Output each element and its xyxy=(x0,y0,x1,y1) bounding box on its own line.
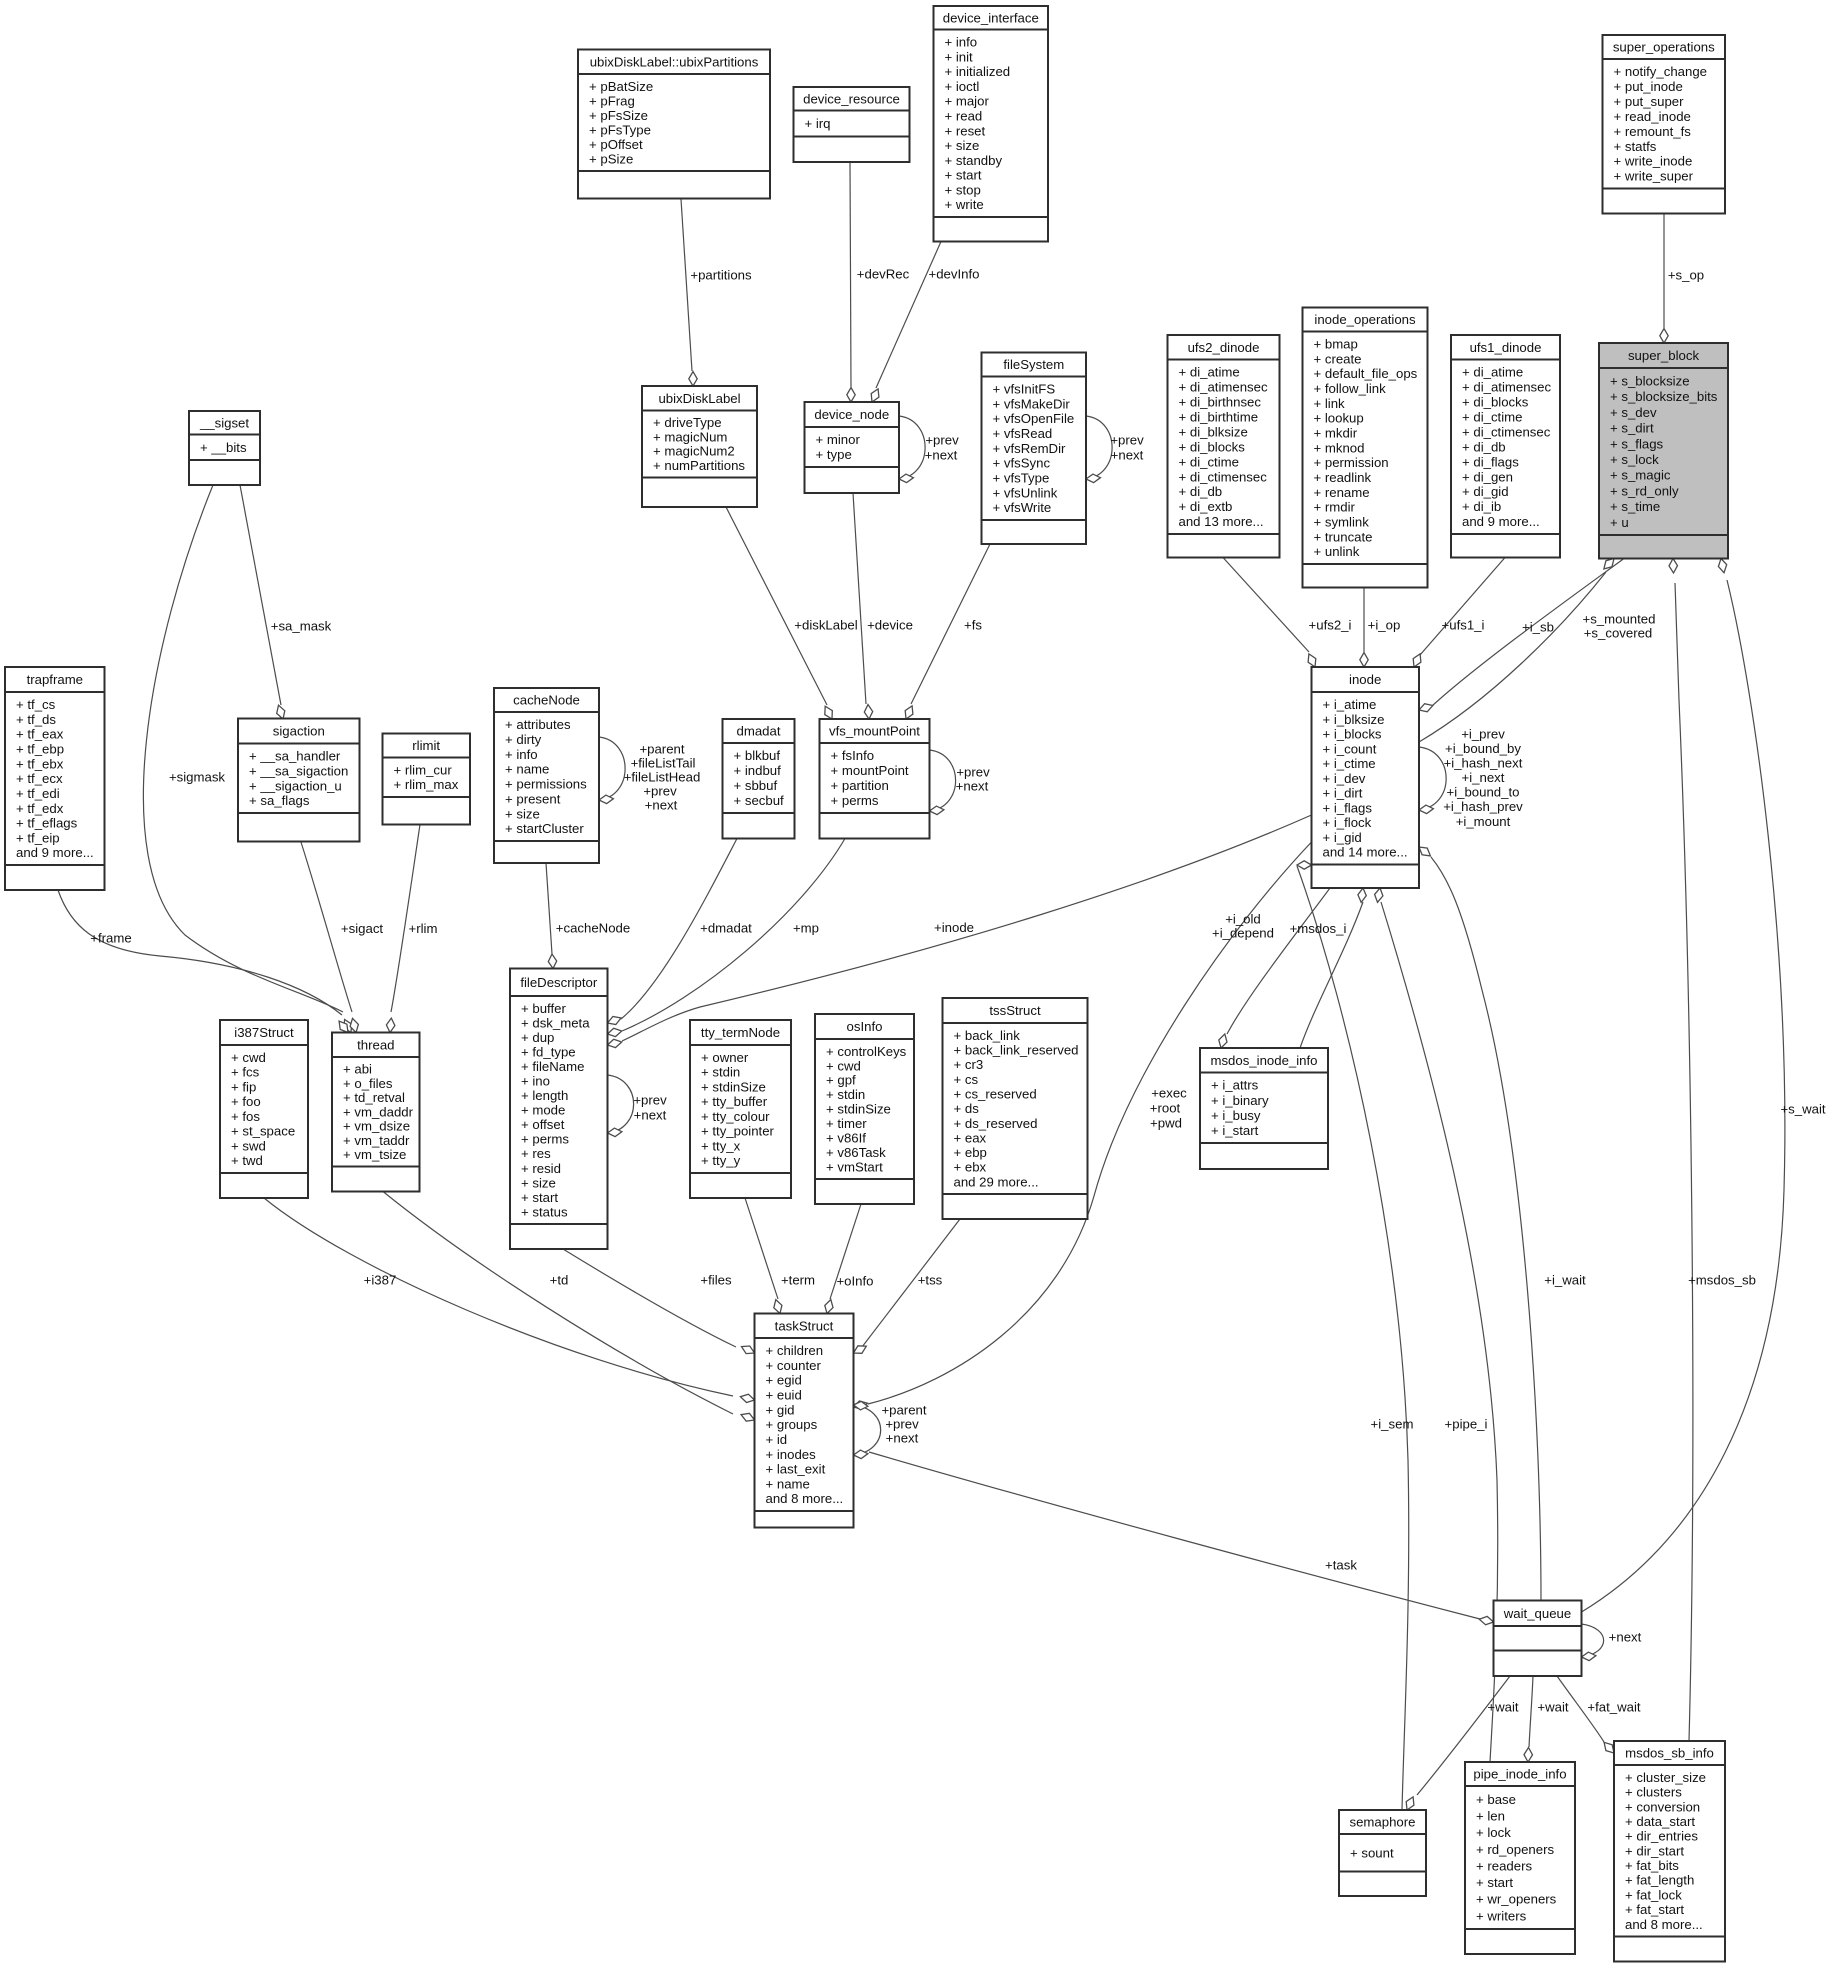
svg-text:+i_bound_by: +i_bound_by xyxy=(1445,741,1521,756)
svg-text:+ perms: + perms xyxy=(521,1132,569,1147)
edge +partitions ubixPartitions->ubixDiskLabel xyxy=(681,199,697,386)
svg-text:+frame: +frame xyxy=(90,931,131,946)
svg-text:and 9 more...: and 9 more... xyxy=(16,845,94,860)
svg-text:+ children: + children xyxy=(766,1343,824,1358)
svg-text:+i_op: +i_op xyxy=(1368,618,1401,633)
svg-text:+ di_ctimensec: + di_ctimensec xyxy=(1179,469,1268,484)
class box taskStruct xyxy=(755,1314,854,1528)
edge +i_sem inode->semaphore xyxy=(1297,861,1409,1810)
svg-text:+ di_ib: + di_ib xyxy=(1462,499,1501,514)
svg-text:+ create: + create xyxy=(1314,351,1362,366)
svg-text:+ offset: + offset xyxy=(521,1117,565,1132)
svg-text:+ info: + info xyxy=(945,35,978,50)
svg-text:+ res: + res xyxy=(521,1146,551,1161)
svg-text:+ fat_start: + fat_start xyxy=(1625,1902,1684,1917)
svg-text:+ di_atimensec: + di_atimensec xyxy=(1462,380,1551,395)
svg-text:+ mountPoint: + mountPoint xyxy=(831,763,909,778)
svg-text:+ufs2_i: +ufs2_i xyxy=(1309,618,1352,633)
svg-text:+ back_link_reserved: + back_link_reserved xyxy=(954,1043,1079,1058)
edge +msdos_sb msdos_sb_info->super_block xyxy=(1669,559,1693,1742)
svg-text:+ s_time: + s_time xyxy=(1610,499,1660,514)
edge +wait wait_queue->semaphore xyxy=(1406,1676,1510,1810)
svg-text:+ ds_reserved: + ds_reserved xyxy=(954,1116,1038,1131)
svg-text:+ di_db: + di_db xyxy=(1462,439,1506,454)
edge +files fileDescriptor->taskStruct xyxy=(563,1249,755,1354)
svg-text:+ statfs: + statfs xyxy=(1614,139,1657,154)
svg-text:+ len: + len xyxy=(1476,1809,1505,1824)
svg-text:msdos_sb_info: msdos_sb_info xyxy=(1625,1746,1714,1761)
class box ufs1_dinode xyxy=(1451,335,1560,558)
svg-text:+i_prev: +i_prev xyxy=(1461,727,1505,742)
svg-text:+ startCluster: + startCluster xyxy=(505,821,584,836)
class box fileDescriptor xyxy=(510,969,608,1250)
class box ufs2_dinode xyxy=(1168,335,1280,558)
svg-text:+ truncate: + truncate xyxy=(1314,529,1373,544)
svg-text:+ i_blksize: + i_blksize xyxy=(1323,712,1385,727)
svg-text:wait_queue: wait_queue xyxy=(1503,1606,1571,1621)
svg-text:+ tf_edi: + tf_edi xyxy=(16,786,60,801)
svg-text:+ controlKeys: + controlKeys xyxy=(826,1044,907,1059)
svg-text:+ stdin: + stdin xyxy=(701,1065,740,1080)
svg-text:+ dup: + dup xyxy=(521,1030,554,1045)
edge +i387 i387Struct->taskStruct xyxy=(264,1198,755,1403)
svg-text:+ wr_openers: + wr_openers xyxy=(1476,1892,1557,1907)
class box super_operations xyxy=(1603,35,1726,214)
svg-text:+ u: + u xyxy=(1610,515,1629,530)
svg-text:+ pFsSize: + pFsSize xyxy=(589,108,648,123)
svg-text:+ tf_cs: + tf_cs xyxy=(16,697,56,712)
svg-text:and 14 more...: and 14 more... xyxy=(1323,845,1408,860)
svg-text:+ name: + name xyxy=(766,1476,810,1491)
svg-text:+ eax: + eax xyxy=(954,1130,987,1145)
edge +devInfo device_interface->device_node xyxy=(871,242,941,403)
svg-text:+ inodes: + inodes xyxy=(766,1447,817,1462)
svg-text:+ i_flags: + i_flags xyxy=(1323,800,1373,815)
edge +i_sb super_block->inode xyxy=(1419,559,1624,712)
svg-text:+s_wait: +s_wait xyxy=(1780,1102,1825,1117)
svg-text:dmadat: dmadat xyxy=(737,724,781,739)
svg-text:+ type: + type xyxy=(816,447,852,462)
svg-text:+ tf_ds: + tf_ds xyxy=(16,712,56,727)
svg-text:+ i_flock: + i_flock xyxy=(1323,815,1372,830)
svg-text:fileSystem: fileSystem xyxy=(1003,357,1064,372)
class box device_resource xyxy=(794,87,910,162)
svg-text:+ partition: + partition xyxy=(831,778,889,793)
class box device_node xyxy=(805,402,900,493)
svg-text:+ vfsUnlink: + vfsUnlink xyxy=(993,485,1058,500)
svg-text:+ vm_dsize: + vm_dsize xyxy=(343,1119,410,1134)
svg-text:+i_sb: +i_sb xyxy=(1522,620,1554,635)
svg-text:trapframe: trapframe xyxy=(27,672,83,687)
svg-text:+ vmStart: + vmStart xyxy=(826,1159,883,1174)
svg-text:+ vfsOpenFile: + vfsOpenFile xyxy=(993,411,1075,426)
svg-text:+term: +term xyxy=(781,1273,815,1288)
svg-text:+ readlink: + readlink xyxy=(1314,470,1372,485)
class box cacheNode xyxy=(494,688,599,863)
svg-text:+ gid: + gid xyxy=(766,1402,795,1417)
svg-text:+ write: + write xyxy=(945,197,984,212)
svg-text:+ dir_start: + dir_start xyxy=(1625,1843,1684,1858)
class box wait_queue xyxy=(1494,1601,1582,1677)
svg-text:+ di_blksize: + di_blksize xyxy=(1179,424,1248,439)
svg-text:+ vfsRead: + vfsRead xyxy=(993,426,1053,441)
svg-text:+ gpf: + gpf xyxy=(826,1073,856,1088)
svg-text:ufs2_dinode: ufs2_dinode xyxy=(1188,340,1260,355)
svg-text:+device: +device xyxy=(867,618,913,633)
svg-text:+ standby: + standby xyxy=(945,153,1003,168)
svg-text:+ di_ctime: + di_ctime xyxy=(1179,454,1239,469)
svg-text:+ lookup: + lookup xyxy=(1314,411,1364,426)
svg-text:+ ds: + ds xyxy=(954,1101,980,1116)
svg-text:+ cluster_size: + cluster_size xyxy=(1625,1770,1706,1785)
svg-text:+i_old: +i_old xyxy=(1225,912,1261,927)
edge +ufs1_i ufs1_dinode->inode xyxy=(1413,558,1505,668)
class box device_interface xyxy=(934,6,1049,242)
class box vfs_mountPoint xyxy=(820,719,930,839)
svg-text:+ i_dev: + i_dev xyxy=(1323,771,1366,786)
edge +frame trapframe->thread xyxy=(58,890,348,1033)
svg-text:+ fd_type: + fd_type xyxy=(521,1045,576,1060)
svg-text:+ stdinSize: + stdinSize xyxy=(826,1102,891,1117)
svg-text:+ cr3: + cr3 xyxy=(954,1057,984,1072)
edge +fs fileSystem->vfs_mountPoint xyxy=(905,544,990,719)
svg-text:+ start: + start xyxy=(1476,1875,1513,1890)
svg-text:+prev: +prev xyxy=(633,1093,667,1108)
svg-text:+s_mounted: +s_mounted xyxy=(1583,612,1656,627)
svg-text:+ di_atime: + di_atime xyxy=(1179,365,1240,380)
svg-text:+ id: + id xyxy=(766,1432,788,1447)
svg-text:+ i_busy: + i_busy xyxy=(1211,1108,1261,1123)
svg-text:+fileListTail: +fileListTail xyxy=(631,756,696,771)
svg-text:+inode: +inode xyxy=(934,920,974,935)
svg-text:+ reset: + reset xyxy=(945,123,986,138)
svg-text:+ i_gid: + i_gid xyxy=(1323,830,1362,845)
edge +mp vfs_mountPoint->fileDescriptor xyxy=(608,839,846,1037)
svg-text:+fat_wait: +fat_wait xyxy=(1587,1700,1640,1715)
svg-text:+files: +files xyxy=(700,1273,732,1288)
svg-text:+prev: +prev xyxy=(1110,433,1144,448)
svg-text:+oInfo: +oInfo xyxy=(836,1274,873,1289)
svg-text:pipe_inode_info: pipe_inode_info xyxy=(1473,1767,1566,1782)
svg-text:+ pFsType: + pFsType xyxy=(589,122,651,137)
svg-text:+ swd: + swd xyxy=(231,1139,266,1154)
svg-text:+ dsk_meta: + dsk_meta xyxy=(521,1015,590,1030)
edge +wait wait_queue->pipe_inode_info xyxy=(1524,1676,1533,1762)
svg-text:+parent: +parent xyxy=(639,742,684,757)
edge +sa_mask __sigset->sigaction xyxy=(240,485,285,719)
svg-text:+ vfsSync: + vfsSync xyxy=(993,456,1051,471)
class box ubixDiskLabel::ubixPartitions xyxy=(578,50,770,199)
svg-text:+ ioctl: + ioctl xyxy=(945,79,980,94)
svg-text:+ tf_edx: + tf_edx xyxy=(16,801,64,816)
svg-text:taskStruct: taskStruct xyxy=(775,1318,834,1333)
svg-text:+ stop: + stop xyxy=(945,182,981,197)
svg-text:+ i_blocks: + i_blocks xyxy=(1323,727,1382,742)
svg-text:+ vfsMakeDir: + vfsMakeDir xyxy=(993,396,1071,411)
svg-text:+ tf_eax: + tf_eax xyxy=(16,727,64,742)
svg-text:+prev: +prev xyxy=(885,1417,919,1432)
class box sigaction xyxy=(238,719,360,842)
svg-text:+ present: + present xyxy=(505,791,561,806)
svg-text:semaphore: semaphore xyxy=(1350,1815,1416,1830)
edge +diskLabel ubixDiskLabel->vfs_mountPoint xyxy=(726,507,832,719)
svg-text:+ foo: + foo xyxy=(231,1094,261,1109)
svg-text:+ start: + start xyxy=(945,168,982,183)
svg-text:+mp: +mp xyxy=(793,921,819,936)
edge +oInfo osInfo->taskStruct xyxy=(825,1204,861,1314)
svg-text:+ di_atimensec: + di_atimensec xyxy=(1179,380,1268,395)
svg-text:+ fat_length: + fat_length xyxy=(1625,1873,1694,1888)
svg-text:+i_hash_next: +i_hash_next xyxy=(1444,756,1523,771)
svg-text:+next: +next xyxy=(1609,1630,1642,1645)
svg-text:+ abi: + abi xyxy=(343,1062,372,1077)
class box thread xyxy=(332,1033,420,1192)
svg-text:+ __sa_handler: + __sa_handler xyxy=(249,749,341,764)
class box pipe_inode_info xyxy=(1465,1762,1575,1954)
class box ubixDiskLabel xyxy=(642,386,757,507)
edge +devRec device_resource->device_node xyxy=(847,162,855,402)
svg-text:+ cwd: + cwd xyxy=(826,1058,861,1073)
svg-text:+rlim: +rlim xyxy=(409,921,438,936)
svg-text:+ s_flags: + s_flags xyxy=(1610,436,1664,451)
svg-text:+ secbuf: + secbuf xyxy=(734,793,785,808)
svg-text:+ bmap: + bmap xyxy=(1314,337,1358,352)
svg-text:+ vm_tsize: + vm_tsize xyxy=(343,1147,406,1162)
svg-text:+ stdin: + stdin xyxy=(826,1087,865,1102)
svg-text:+ufs1_i: +ufs1_i xyxy=(1442,618,1485,633)
svg-text:+ rmdir: + rmdir xyxy=(1314,500,1356,515)
svg-text:+ tf_eflags: + tf_eflags xyxy=(16,816,78,831)
svg-text:+wait: +wait xyxy=(1487,1700,1518,1715)
svg-text:+s_covered: +s_covered xyxy=(1584,626,1653,641)
svg-text:+ dirty: + dirty xyxy=(505,732,542,747)
svg-text:inode: inode xyxy=(1349,672,1381,687)
svg-text:+ tty_x: + tty_x xyxy=(701,1139,741,1154)
svg-text:+ v86Task: + v86Task xyxy=(826,1145,886,1160)
svg-text:rlimit: rlimit xyxy=(412,738,440,753)
svg-text:+ notify_change: + notify_change xyxy=(1614,64,1708,79)
svg-text:+ cwd: + cwd xyxy=(231,1050,266,1065)
svg-text:tssStruct: tssStruct xyxy=(989,1003,1041,1018)
svg-text:+ permission: + permission xyxy=(1314,455,1389,470)
svg-text:+ pBatSize: + pBatSize xyxy=(589,79,653,94)
svg-text:+ s_rd_only: + s_rd_only xyxy=(1610,483,1679,498)
svg-text:+ length: + length xyxy=(521,1088,568,1103)
self-loop vfs_mountPoint +prev+next xyxy=(930,750,956,815)
svg-text:+ sount: + sount xyxy=(1350,1845,1394,1860)
svg-text:+ link: + link xyxy=(1314,396,1346,411)
edge +td thread->taskStruct xyxy=(383,1192,755,1422)
svg-text:i387Struct: i387Struct xyxy=(234,1025,294,1040)
svg-text:+ di_blocks: + di_blocks xyxy=(1462,395,1529,410)
svg-text:+ i_ctime: + i_ctime xyxy=(1323,756,1376,771)
edge +exec+root+pwd inode->taskStruct xyxy=(854,842,1312,1409)
self-loop fileSystem +prev+next xyxy=(1086,416,1112,483)
svg-text:+ fos: + fos xyxy=(231,1109,260,1124)
svg-text:+wait: +wait xyxy=(1537,1700,1568,1715)
svg-text:+ tf_ecx: + tf_ecx xyxy=(16,771,63,786)
svg-text:+ di_birthtime: + di_birthtime xyxy=(1179,410,1259,425)
svg-text:+ write_inode: + write_inode xyxy=(1614,154,1693,169)
svg-text:+ vfsInitFS: + vfsInitFS xyxy=(993,382,1056,397)
svg-text:+ di_ctimensec: + di_ctimensec xyxy=(1462,424,1551,439)
svg-text:+fileListHead: +fileListHead xyxy=(624,770,701,785)
svg-text:+ dir_entries: + dir_entries xyxy=(1625,1829,1698,1844)
svg-text:+ rlim_max: + rlim_max xyxy=(394,777,459,792)
svg-text:device_node: device_node xyxy=(814,407,889,422)
svg-text:+ lock: + lock xyxy=(1476,1825,1511,1840)
svg-text:device_resource: device_resource xyxy=(803,91,900,106)
svg-text:+prev: +prev xyxy=(643,784,677,799)
svg-text:+ data_start: + data_start xyxy=(1625,1814,1695,1829)
svg-text:+ s_dev: + s_dev xyxy=(1610,405,1657,420)
svg-text:+ name: + name xyxy=(505,762,549,777)
svg-text:+ indbuf: + indbuf xyxy=(734,763,782,778)
svg-text:+ rlim_cur: + rlim_cur xyxy=(394,763,453,778)
svg-text:+sigact: +sigact xyxy=(341,921,383,936)
svg-text:inode_operations: inode_operations xyxy=(1314,312,1416,327)
svg-text:+ last_exit: + last_exit xyxy=(766,1462,826,1477)
svg-text:+ tty_y: + tty_y xyxy=(701,1153,741,1168)
svg-text:+partitions: +partitions xyxy=(690,268,752,283)
svg-text:+ di_atime: + di_atime xyxy=(1462,365,1523,380)
self-loop inode +i_prev... xyxy=(1419,747,1446,814)
svg-text:+ info: + info xyxy=(505,747,538,762)
edge +sigact sigaction->thread xyxy=(300,839,358,1033)
svg-text:+ stdinSize: + stdinSize xyxy=(701,1080,766,1095)
svg-text:+ numPartitions: + numPartitions xyxy=(653,458,745,473)
svg-text:+i_sem: +i_sem xyxy=(1371,1417,1414,1432)
svg-text:+sigmask: +sigmask xyxy=(169,770,225,785)
svg-text:+ remount_fs: + remount_fs xyxy=(1614,124,1692,139)
svg-text:+ size: + size xyxy=(521,1175,556,1190)
svg-text:and 13 more...: and 13 more... xyxy=(1179,514,1264,529)
edge +s_mounted inode->super_block xyxy=(1419,559,1614,743)
edge +i_old+i_depend inode->msdos_inode_info xyxy=(1219,888,1330,1048)
svg-text:+ vm_daddr: + vm_daddr xyxy=(343,1104,414,1119)
svg-text:+ write_super: + write_super xyxy=(1614,169,1694,184)
svg-text:+ minor: + minor xyxy=(816,432,861,447)
svg-text:+ fileName: + fileName xyxy=(521,1059,584,1074)
svg-text:+i_depend: +i_depend xyxy=(1212,926,1274,941)
svg-text:+ td_retval: + td_retval xyxy=(343,1090,405,1105)
class box msdos_sb_info xyxy=(1614,1741,1725,1962)
svg-text:+ tty_pointer: + tty_pointer xyxy=(701,1124,775,1139)
svg-text:+ status: + status xyxy=(521,1204,568,1219)
svg-text:ubixDiskLabel: ubixDiskLabel xyxy=(658,391,740,406)
svg-text:+ sa_flags: + sa_flags xyxy=(249,793,310,808)
svg-text:+ di_blocks: + di_blocks xyxy=(1179,439,1246,454)
svg-text:+ __sa_sigaction: + __sa_sigaction xyxy=(249,763,348,778)
svg-text:+ mode: + mode xyxy=(521,1103,565,1118)
svg-text:+prev: +prev xyxy=(925,433,959,448)
svg-text:+ mkdir: + mkdir xyxy=(1314,426,1358,441)
svg-text:+diskLabel: +diskLabel xyxy=(794,618,857,633)
self-loop cacheNode +parent... xyxy=(599,737,625,804)
svg-text:+s_op: +s_op xyxy=(1668,268,1704,283)
class box inode xyxy=(1312,667,1420,888)
edge +pipe_i inode->pipe_inode_info xyxy=(1375,888,1498,1762)
svg-text:+ rd_openers: + rd_openers xyxy=(1476,1842,1554,1857)
svg-text:+ tty_colour: + tty_colour xyxy=(701,1109,770,1124)
svg-text:ubixDiskLabel::ubixPartitions: ubixDiskLabel::ubixPartitions xyxy=(590,54,759,69)
svg-text:+ fat_lock: + fat_lock xyxy=(1625,1887,1682,1902)
svg-text:+next: +next xyxy=(1111,448,1144,463)
svg-text:+ size: + size xyxy=(505,806,540,821)
edge +inode inode->fileDescriptor xyxy=(608,815,1312,1048)
svg-text:+ driveType: + driveType xyxy=(653,415,722,430)
svg-text:+ tf_eip: + tf_eip xyxy=(16,830,60,845)
svg-text:+ back_link: + back_link xyxy=(954,1028,1021,1043)
class box i387Struct xyxy=(220,1020,308,1198)
svg-text:+ cs_reserved: + cs_reserved xyxy=(954,1087,1037,1102)
svg-text:+ i_atime: + i_atime xyxy=(1323,697,1377,712)
svg-text:+ di_db: + di_db xyxy=(1179,484,1223,499)
svg-text:+ s_blocksize_bits: + s_blocksize_bits xyxy=(1610,389,1718,404)
svg-text:and 8 more...: and 8 more... xyxy=(766,1491,844,1506)
svg-text:+ major: + major xyxy=(945,94,990,109)
svg-text:+i387: +i387 xyxy=(364,1273,397,1288)
svg-text:+td: +td xyxy=(550,1273,569,1288)
svg-text:+ read_inode: + read_inode xyxy=(1614,109,1691,124)
svg-text:+ i_binary: + i_binary xyxy=(1211,1093,1269,1108)
edge +s_wait wait_queue->super_block xyxy=(1582,559,1785,1613)
svg-text:super_operations: super_operations xyxy=(1613,40,1715,55)
svg-text:+tss: +tss xyxy=(918,1273,943,1288)
edge +i_wait wait_queue->inode xyxy=(1419,847,1541,1601)
svg-text:+ s_magic: + s_magic xyxy=(1610,468,1671,483)
class box osInfo xyxy=(815,1014,914,1204)
svg-text:+ buffer: + buffer xyxy=(521,1001,566,1016)
svg-text:+ owner: + owner xyxy=(701,1050,749,1065)
svg-text:+ default_file_ops: + default_file_ops xyxy=(1314,366,1418,381)
svg-text:+ vfsType: + vfsType xyxy=(993,471,1050,486)
svg-text:+ magicNum2: + magicNum2 xyxy=(653,444,735,459)
self-loop device_node +prev+next xyxy=(899,416,925,483)
edge +tss tssStruct->taskStruct xyxy=(854,1219,961,1353)
svg-text:+ euid: + euid xyxy=(766,1388,802,1403)
edge +sigmask __sigset->thread xyxy=(143,485,351,1033)
svg-text:+devRec: +devRec xyxy=(857,267,910,282)
svg-text:+i_hash_prev: +i_hash_prev xyxy=(1443,799,1523,814)
svg-text:+ timer: + timer xyxy=(826,1116,867,1131)
svg-text:+ conversion: + conversion xyxy=(1625,1799,1700,1814)
svg-text:device_interface: device_interface xyxy=(943,10,1039,25)
svg-text:+msdos_i: +msdos_i xyxy=(1290,921,1347,936)
class box tssStruct xyxy=(943,998,1088,1219)
svg-text:+ sbbuf: + sbbuf xyxy=(734,778,778,793)
svg-text:+ ebp: + ebp xyxy=(954,1145,987,1160)
svg-text:+ st_space: + st_space xyxy=(231,1124,295,1139)
svg-text:+ resid: + resid xyxy=(521,1161,561,1176)
svg-text:tty_termNode: tty_termNode xyxy=(701,1025,780,1040)
svg-text:+ put_super: + put_super xyxy=(1614,94,1685,109)
svg-text:+ clusters: + clusters xyxy=(1625,1785,1682,1800)
svg-text:and 29 more...: and 29 more... xyxy=(954,1174,1039,1189)
svg-text:+sa_mask: +sa_mask xyxy=(271,619,332,634)
svg-text:+ unlink: + unlink xyxy=(1314,544,1360,559)
svg-text:+ vm_taddr: + vm_taddr xyxy=(343,1133,410,1148)
edge +task taskStruct->wait_queue xyxy=(869,1452,1494,1625)
svg-text:+exec: +exec xyxy=(1151,1086,1187,1101)
class box super_block xyxy=(1599,343,1728,559)
edge +cacheNode cacheNode->fileDescriptor xyxy=(546,863,557,969)
svg-text:+ base: + base xyxy=(1476,1792,1516,1807)
svg-text:+ di_flags: + di_flags xyxy=(1462,454,1519,469)
svg-text:+ s_dirt: + s_dirt xyxy=(1610,421,1654,436)
svg-text:osInfo: osInfo xyxy=(847,1019,883,1034)
svg-text:+ pSize: + pSize xyxy=(589,151,633,166)
